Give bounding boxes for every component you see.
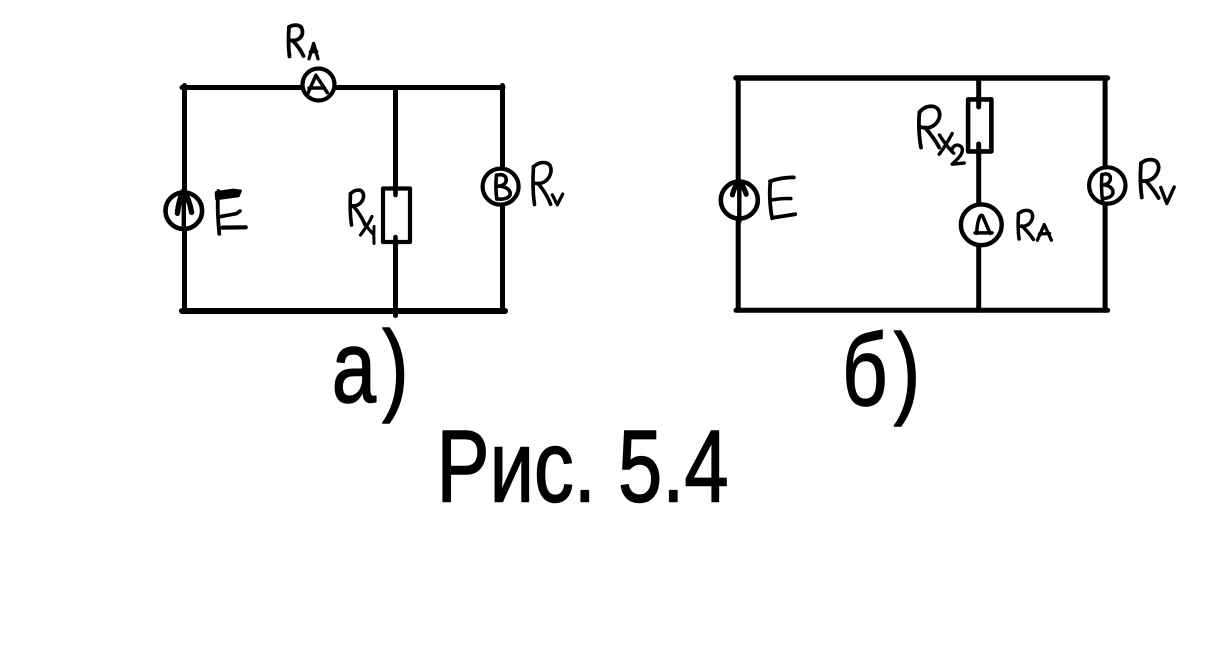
source E (circuit a): circle with up arrow bbox=[166, 192, 203, 229]
svg-text:а): а) bbox=[332, 311, 415, 425]
voltmeter V (circuit b): circle on right wire bbox=[1089, 167, 1125, 203]
label Rv (handwritten, circuit a) bbox=[533, 162, 563, 204]
source E (circuit b): circle with up arrow bbox=[721, 182, 758, 219]
source E arrow barb right bbox=[184, 191, 191, 213]
voltmeter V letter (handwritten Cyrillic В) bbox=[496, 175, 510, 199]
wire: segment below ammeter A to bottom wire bbox=[976, 243, 981, 310]
wire: left wire of circuit b bbox=[736, 78, 741, 310]
label Rx2 (handwritten) bbox=[919, 106, 964, 164]
label RA above ammeter (handwritten) bbox=[289, 25, 318, 59]
wire: right wire of circuit b bbox=[1103, 78, 1108, 310]
wire: stub into resistor Rx2 bottom bbox=[976, 144, 981, 154]
wire: middle branch wire of circuit a (node junctions at top and bottom) bbox=[393, 88, 398, 198]
voltmeter V letter (handwritten Cyrillic В, circuit b) bbox=[1102, 174, 1114, 200]
source E arrow barb left (circuit b) bbox=[733, 181, 740, 195]
label RA (handwritten, circuit b) bbox=[1018, 210, 1051, 240]
wire: bottom wire of circuit b bbox=[736, 308, 1108, 313]
ammeter A letter (handwritten Cyrillic А) bbox=[975, 215, 992, 233]
wire: left wire of circuit a bbox=[182, 86, 187, 312]
label E (handwritten, circuit b) bbox=[770, 177, 795, 218]
label E (handwritten, circuit a) bbox=[216, 190, 246, 234]
ammeter A (circuit a): circle on top wire bbox=[303, 69, 335, 101]
voltmeter V (circuit a): circle on right wire bbox=[483, 169, 519, 205]
source E arrow barb right (circuit b) bbox=[740, 181, 747, 194]
resistor Rx2 (unknown resistor, circuit b) bbox=[968, 99, 991, 151]
ammeter A (circuit b): circle on middle branch bbox=[961, 204, 1002, 245]
source E arrow barb left bbox=[177, 191, 183, 214]
wire: segment between resistor Rx2 and ammeter A bbox=[976, 146, 981, 206]
label Rv (handwritten, circuit b) bbox=[1140, 160, 1174, 204]
wire: middle branch wire of circuit b, top segment into resistor Rx2 bbox=[976, 78, 981, 106]
source E arrow shaft bbox=[182, 192, 186, 230]
label Rx1 (handwritten) bbox=[350, 190, 374, 243]
source E arrow shaft (circuit b) bbox=[737, 182, 741, 222]
wire: stub into resistor Rx1 bottom bbox=[393, 237, 398, 244]
ammeter A letter (handwritten A) bbox=[308, 75, 327, 93]
wire: stub into resistor Rx1 top bbox=[393, 186, 398, 195]
svg-text:Рис. 5.4: Рис. 5.4 bbox=[437, 410, 729, 524]
wire: top wire of circuit a bbox=[182, 85, 503, 90]
wire: bottom wire of circuit a bbox=[182, 308, 505, 314]
wire: top wire of circuit b bbox=[736, 75, 1108, 80]
wire: stub into resistor Rx2 top bbox=[976, 97, 981, 107]
resistor Rx1 (unknown resistor, circuit a) bbox=[383, 189, 410, 243]
wire: right wire of circuit a bbox=[500, 86, 505, 312]
svg-text:б): б) bbox=[842, 314, 927, 428]
